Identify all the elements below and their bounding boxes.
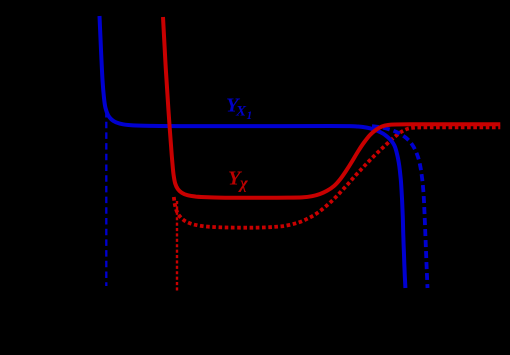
svg-text:X: X [235,104,247,120]
blue dashed vertical guide line [105,111,107,286]
label Y_chi (red) [228,168,248,193]
red dotted vertical guide line [176,201,178,291]
red dotted curve (dashed variant of Y_chi) [174,127,501,227]
label Y_X1 (blue) [226,95,252,123]
blue dashed curve (dashed variant of Y_X1) [372,126,428,288]
red solid curve Y_chi [163,17,500,198]
svg-text:χ: χ [238,174,248,193]
svg-text:1: 1 [247,110,253,122]
blue solid curve Y_X1 [100,16,406,288]
